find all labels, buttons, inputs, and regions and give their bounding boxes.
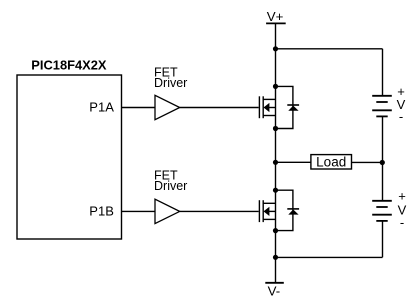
svg-text:P1B: P1B — [89, 204, 114, 219]
svg-text:-: - — [399, 109, 403, 124]
svg-text:-: - — [400, 215, 404, 230]
svg-text:V+: V+ — [267, 9, 284, 24]
svg-text:Load: Load — [316, 155, 346, 170]
svg-text:V-: V- — [268, 284, 281, 299]
svg-text:Driver: Driver — [154, 76, 187, 90]
svg-text:P1A: P1A — [89, 100, 114, 115]
svg-text:Driver: Driver — [154, 179, 187, 193]
svg-text:PIC18F4X2X: PIC18F4X2X — [31, 58, 107, 73]
